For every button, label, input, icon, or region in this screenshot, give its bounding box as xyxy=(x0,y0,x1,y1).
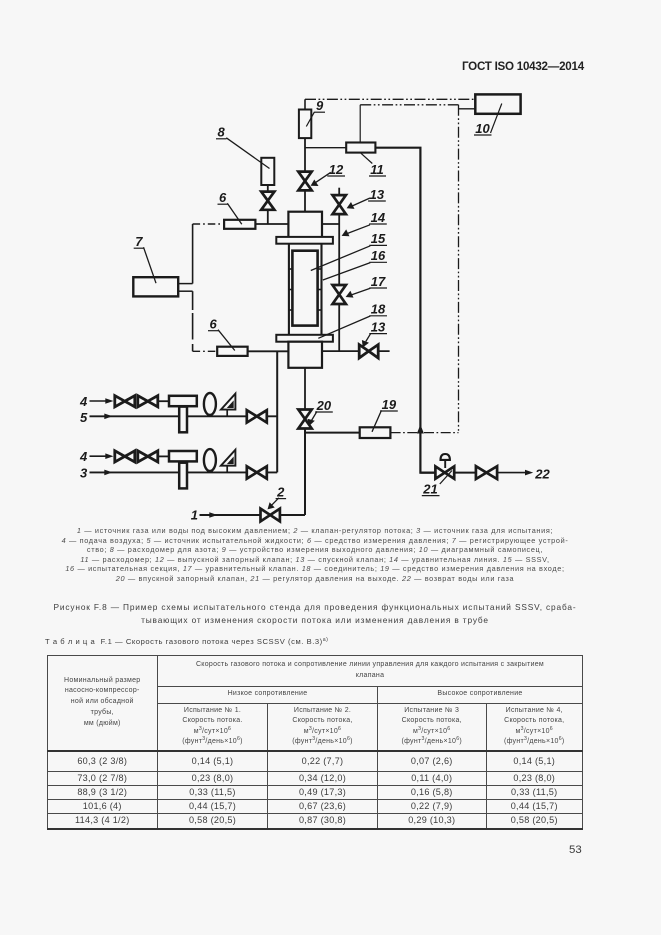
label 20 xyxy=(308,398,333,426)
svg-text:11: 11 xyxy=(370,162,384,177)
valve 17 xyxy=(333,285,346,304)
label 12 xyxy=(311,162,345,186)
test head top box (connector 18 upper) xyxy=(288,212,322,237)
row 4 lower: valve b xyxy=(138,451,158,462)
svg-text:1: 1 xyxy=(191,507,198,522)
wire: main line below valve 20 down to inlet line xyxy=(304,429,306,516)
wire: drain line right with open end xyxy=(322,350,390,352)
wire: upper header line solid part through gauge 6 to top box xyxy=(224,223,289,225)
wire: signal dash-dot line B from 11 riser to right drop xyxy=(360,104,458,106)
valve 13 (top, equalization line) xyxy=(333,195,346,214)
label 8 xyxy=(216,125,270,169)
manifold T upper (bar) xyxy=(169,396,197,406)
svg-text:14: 14 xyxy=(371,210,386,225)
label 15 xyxy=(311,231,387,270)
svg-text:13: 13 xyxy=(371,319,386,334)
svg-text:12: 12 xyxy=(329,162,344,177)
label 7 xyxy=(134,234,156,283)
svg-text:6: 6 xyxy=(219,190,227,205)
pressure gauge 6 (lower) xyxy=(217,347,247,356)
svg-text:22: 22 xyxy=(534,466,550,481)
svg-text:21: 21 xyxy=(422,481,437,496)
bottom flange xyxy=(276,335,333,342)
wire: row 4 lower to manifold xyxy=(158,455,169,457)
label 17 xyxy=(346,274,387,298)
gauge oval lower xyxy=(204,449,216,471)
label 19 xyxy=(372,397,398,432)
wire: row 4 upper to manifold xyxy=(158,400,169,402)
manifold T lower (stem) xyxy=(179,463,187,489)
label 6 lower xyxy=(208,317,235,351)
wire: branch to flowmeter 11 xyxy=(305,147,346,149)
wire: stub from flowmeter 9 top xyxy=(304,99,306,109)
label 6 upper xyxy=(218,190,242,224)
regulator valve 21 xyxy=(435,466,454,478)
label 9 xyxy=(306,98,325,127)
label 21 xyxy=(422,471,452,497)
valve on line 5 xyxy=(247,410,267,422)
row 4 upper: valve b xyxy=(138,396,158,407)
wire: lower drain line through gauge 6b to bottom box xyxy=(217,350,289,352)
svg-text:3: 3 xyxy=(80,465,88,480)
wire: upper header line right of top box to equalization line xyxy=(322,223,340,225)
recorder 7 xyxy=(133,277,178,296)
wire: upper header line (dash-dot at left of 6) xyxy=(193,223,225,225)
housing wall left xyxy=(288,244,290,335)
pressure gauge 8 (nitrogen flowmeter) xyxy=(261,158,274,185)
gauge oval upper xyxy=(204,393,216,415)
svg-text:19: 19 xyxy=(382,397,397,412)
label 11 xyxy=(361,153,386,177)
svg-text:7: 7 xyxy=(135,234,143,249)
wire: riser joining lines 5 and 3 to drain xyxy=(276,351,278,472)
test section 16 inner tube (SSSV 15 inside) xyxy=(292,251,317,326)
svg-text:5: 5 xyxy=(80,410,88,425)
flow regulator valve 2 xyxy=(261,509,280,522)
wire: equalization line 14 stub above valve 13 xyxy=(338,188,340,196)
manifold T lower (bar) xyxy=(169,451,197,461)
row 4 lower: valve a xyxy=(115,451,135,462)
recorder U10 xyxy=(475,94,520,113)
housing wall right xyxy=(320,244,322,335)
wire: equalization line below valve 17 to drain xyxy=(338,304,340,351)
svg-text:10: 10 xyxy=(475,121,490,136)
wire: valve of 8 down to upper header line xyxy=(267,210,269,224)
wire: arrow to return 22 xyxy=(497,472,527,474)
label 10 xyxy=(474,104,502,136)
flowmeter 19 (inlet pressure) xyxy=(360,427,391,438)
wire: lower drain line left (dash-dot) xyxy=(193,350,218,352)
junction up-arrow on signal line xyxy=(417,425,424,434)
svg-text:4: 4 xyxy=(79,394,88,409)
test head bottom box (connector 18 lower) xyxy=(288,342,322,368)
valve on line 3 xyxy=(247,466,267,478)
wire: twin stubs from 7 to riser xyxy=(178,283,192,285)
wire: line 3 with arrow xyxy=(90,471,278,473)
regulator 21 stem xyxy=(444,460,446,468)
wire: arrow 4 lower xyxy=(90,455,107,457)
wire: thick signal line from 11 right to vertical drop xyxy=(375,148,435,473)
wire: arrow 4 upper xyxy=(90,400,107,402)
svg-text:20: 20 xyxy=(316,398,332,413)
pressure gauge 6 (upper) xyxy=(224,220,255,229)
flowmeter 11 xyxy=(346,143,375,153)
wire: outlet line corner to regulator 21 xyxy=(420,472,435,474)
regulator 21 dome xyxy=(441,454,450,460)
label 2 xyxy=(268,484,287,509)
svg-text:6: 6 xyxy=(210,317,218,332)
svg-text:9: 9 xyxy=(316,98,324,113)
wire: between 21 and outlet valve xyxy=(454,472,476,474)
wire: bottom box to valve 20 xyxy=(304,368,306,410)
outlet valve before 22 xyxy=(476,466,497,479)
label 13 bottom xyxy=(362,319,387,347)
top flange xyxy=(276,237,333,244)
svg-text:2: 2 xyxy=(276,484,285,499)
label 18 xyxy=(318,302,387,339)
wire: 8 to its valve xyxy=(267,185,269,192)
manifold T upper (stem) xyxy=(179,407,187,433)
wire: riser from line B down to flowmeter 11 xyxy=(359,105,361,143)
relief flag lower xyxy=(221,450,236,473)
wire: left recorder riser (long dash) xyxy=(192,224,194,284)
svg-text:16: 16 xyxy=(371,248,386,263)
wire: branch to flowmeter 19 xyxy=(305,432,360,434)
svg-text:4: 4 xyxy=(79,449,88,464)
wire: line 5 with arrow xyxy=(90,415,278,417)
svg-text:17: 17 xyxy=(371,274,386,289)
label 14 xyxy=(342,210,387,237)
label 13 top xyxy=(347,187,386,209)
label 16 xyxy=(323,248,387,280)
svg-text:18: 18 xyxy=(371,302,386,317)
wire: bottom signal dash-dot from flowmeter 19 to right drop xyxy=(391,432,459,434)
wire: signal dash-dot line A from 9 to recorder 10 xyxy=(305,98,476,100)
row 4 upper: valve a xyxy=(115,396,135,407)
svg-text:13: 13 xyxy=(370,187,385,202)
valve 13 (bottom drain) xyxy=(359,345,378,358)
svg-text:15: 15 xyxy=(371,231,386,246)
wire: valve 12 to test head top box xyxy=(304,190,306,212)
wire: right vertical signal dash-dot line xyxy=(458,105,460,433)
svg-text:8: 8 xyxy=(218,125,226,140)
wire: from 9 down to valve 12 xyxy=(304,138,306,172)
wire: equalization line between valve 13 and valve 17 xyxy=(338,214,340,285)
valve 12 xyxy=(298,172,311,191)
flowmeter 9 (outlet pressure device) xyxy=(299,110,311,139)
spacer ticks xyxy=(289,269,322,310)
valve under 8 xyxy=(261,192,274,210)
valve 20 xyxy=(298,410,311,429)
wire: inlet line 1 with arrow xyxy=(200,514,306,516)
relief flag upper xyxy=(221,394,236,417)
wire: short connector into recorder 10 xyxy=(459,108,476,110)
